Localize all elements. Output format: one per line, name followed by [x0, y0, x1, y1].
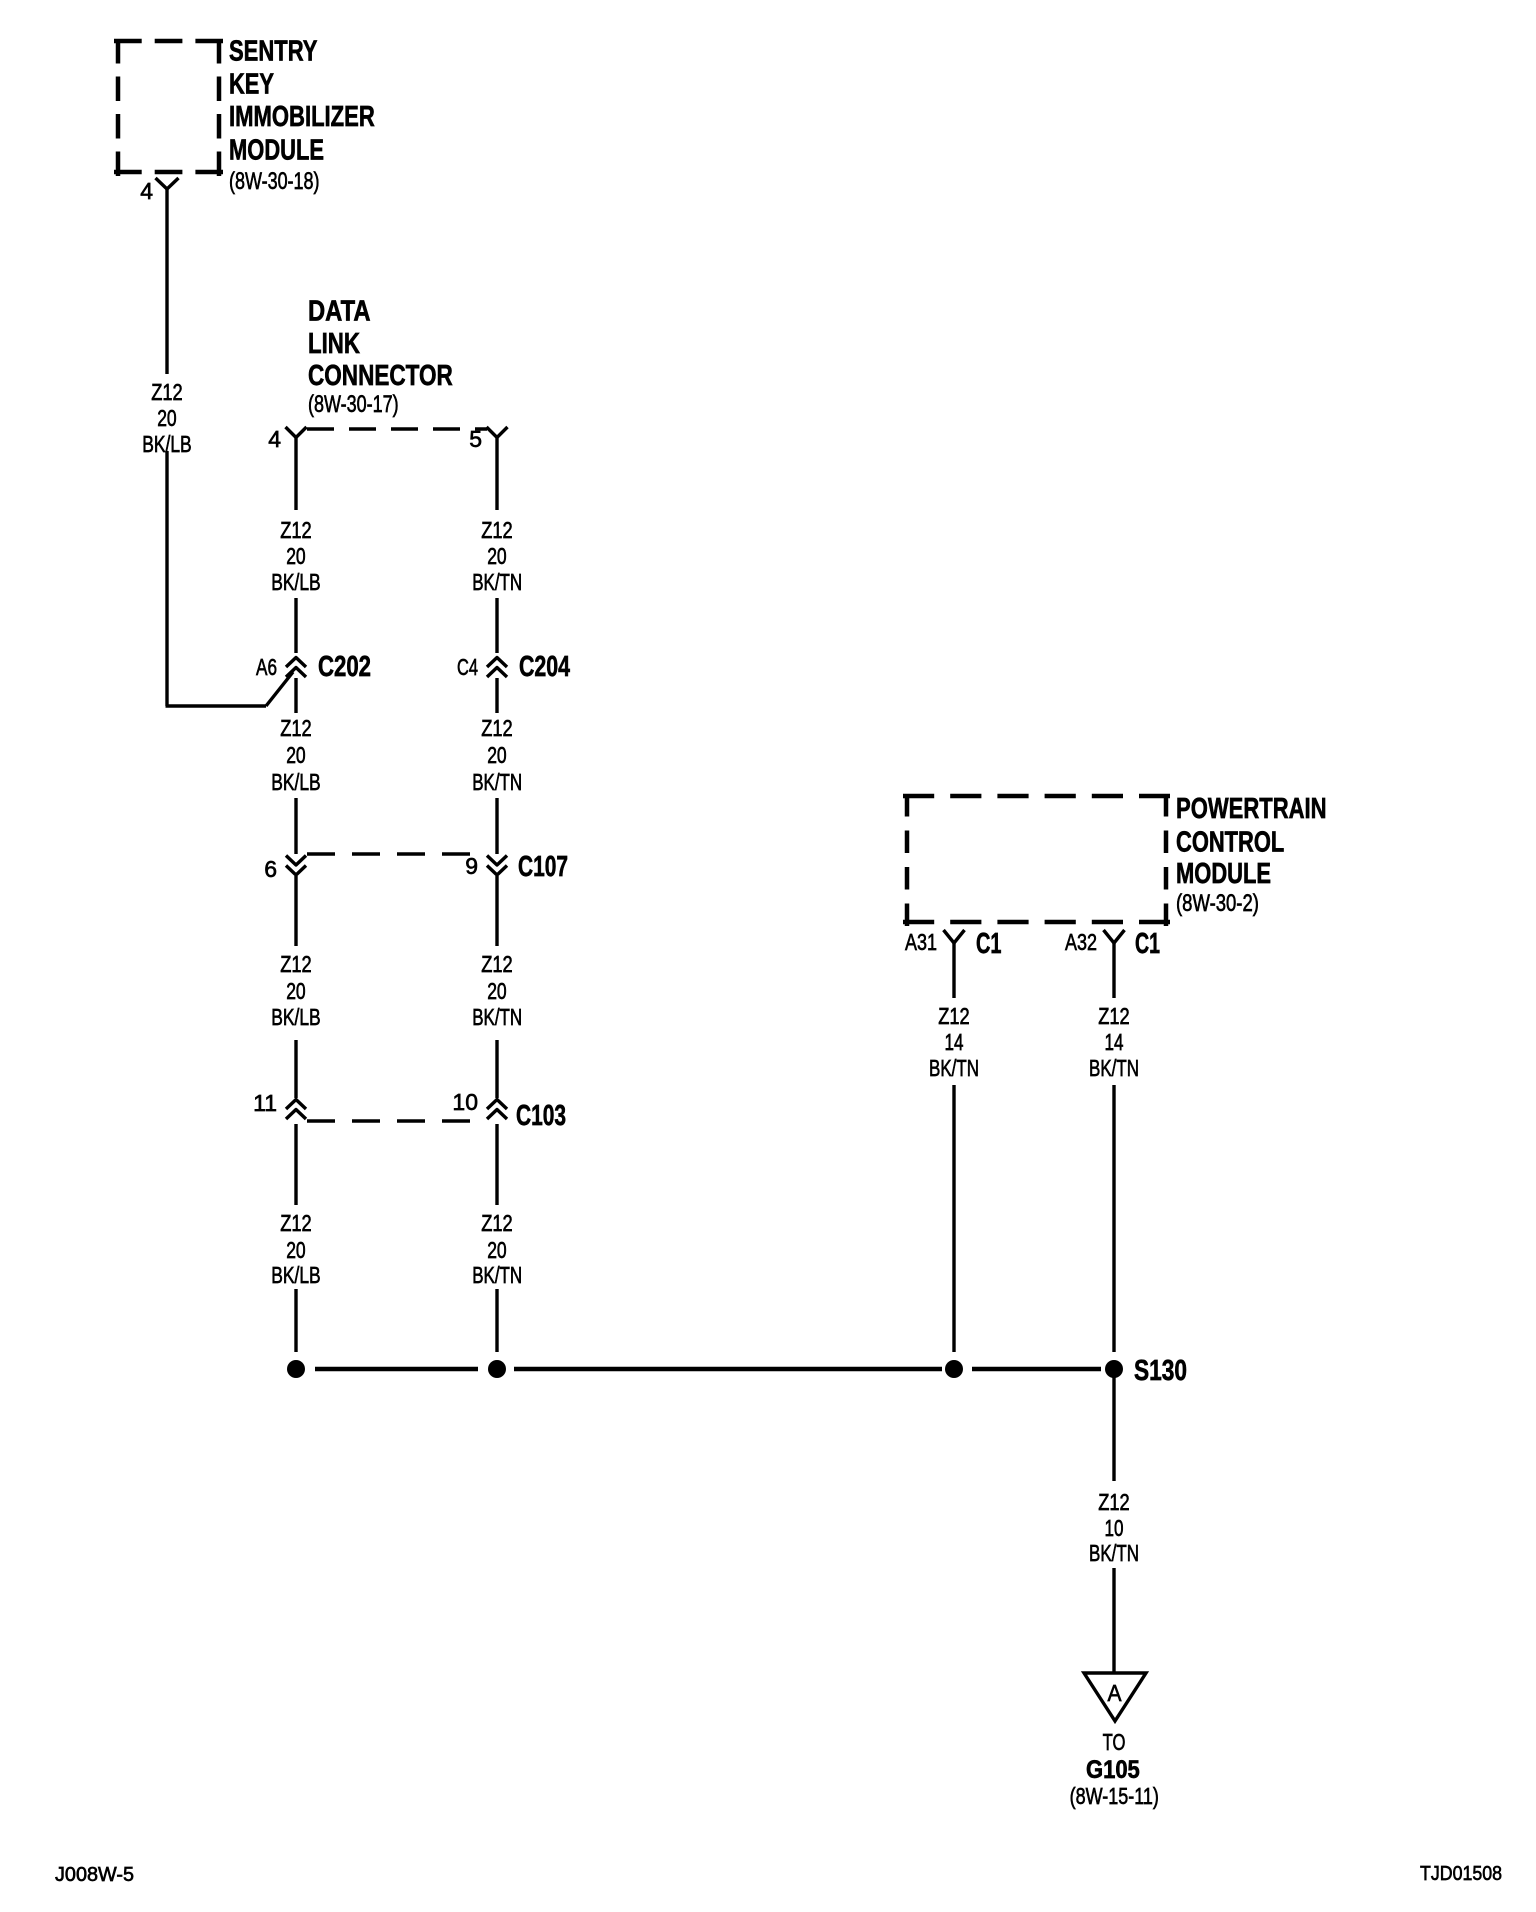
svg-text:C204: C204 — [519, 651, 570, 683]
pin A32 connector Y symbol of PCM — [1104, 930, 1125, 943]
svg-text:20: 20 — [487, 1237, 507, 1263]
label wire Z12 14 BK/TN (column D) — [929, 1003, 979, 1081]
wire column C into C107 pin 9 — [495, 798, 498, 854]
junction dot column C on S130 bus — [488, 1360, 506, 1378]
svg-text:S130: S130 — [1134, 1355, 1187, 1387]
svg-text:9: 9 — [465, 853, 478, 879]
label wire Z12 20 BK/LB (column A) — [142, 379, 192, 457]
wire column B to splice S130 — [294, 1289, 297, 1352]
svg-text:6: 6 — [264, 856, 277, 882]
svg-text:TO: TO — [1103, 1729, 1126, 1755]
label wire Z12 20 BK/TN (column C above C204) — [472, 517, 522, 595]
svg-text:4: 4 — [268, 426, 281, 452]
svg-text:BK/TN: BK/TN — [472, 569, 522, 595]
wire column B into C107 pin 6 — [294, 798, 297, 854]
wire below C107 pin 9 — [495, 876, 498, 946]
svg-text:A32: A32 — [1065, 929, 1097, 955]
label DATA LINK CONNECTOR (8W-30-17) — [308, 296, 453, 418]
svg-text:C103: C103 — [516, 1100, 566, 1132]
svg-text:Z12: Z12 — [151, 379, 183, 405]
svg-text:C107: C107 — [518, 851, 568, 883]
svg-text:A31: A31 — [905, 929, 937, 955]
svg-text:MODULE: MODULE — [1176, 858, 1271, 890]
wire Z12 10 BK/TN below S130 — [1112, 1369, 1115, 1481]
wire column E to splice S130 — [1112, 1085, 1115, 1352]
svg-text:CONTROL: CONTROL — [1176, 827, 1284, 859]
wire below C103 pin 10 — [495, 1124, 498, 1205]
label wire Z12 20 BK/TN (column C below C204) — [472, 715, 522, 795]
svg-text:DATA: DATA — [308, 296, 371, 328]
connector C107 pin 6 double chevron symbol — [286, 856, 306, 876]
connector C202 double chevron symbol — [286, 658, 306, 678]
wire column D to splice S130 — [952, 1085, 955, 1352]
label TO G105 (8W-15-11) — [1070, 1729, 1159, 1809]
connector C103 body dashed line — [307, 1119, 486, 1122]
svg-text:J008W-5: J008W-5 — [55, 1864, 134, 1886]
svg-text:MODULE: MODULE — [229, 135, 324, 167]
svg-text:BK/LB: BK/LB — [271, 569, 321, 595]
junction dot column B on S130 bus — [287, 1360, 305, 1378]
svg-text:Z12: Z12 — [280, 951, 312, 977]
pin 5 connector Y symbol of DLC — [487, 427, 508, 438]
svg-text:A6: A6 — [256, 654, 277, 680]
svg-text:Z12: Z12 — [481, 715, 513, 741]
svg-text:IMMOBILIZER: IMMOBILIZER — [229, 101, 375, 133]
wire splice bus segment between column B and C — [315, 1367, 478, 1372]
label wire Z12 20 BK/LB (column B above C202) — [271, 517, 321, 595]
svg-text:14: 14 — [945, 1029, 964, 1055]
svg-text:20: 20 — [286, 742, 306, 768]
svg-text:BK/LB: BK/LB — [271, 1004, 321, 1030]
data link connector body dashed line — [307, 427, 487, 430]
wire from PCM pin A31 (stem) — [952, 943, 955, 998]
svg-text:CONNECTOR: CONNECTOR — [308, 360, 453, 392]
svg-text:TJD01508: TJD01508 — [1420, 1863, 1502, 1885]
wire down to off-page reference A — [1112, 1568, 1115, 1673]
svg-text:20: 20 — [286, 543, 306, 569]
wire column C into C204 — [495, 598, 498, 653]
svg-text:C1: C1 — [976, 928, 1002, 960]
label wire Z12 20 BK/LB (column B bottom) — [271, 1210, 321, 1288]
svg-text:(8W-30-17): (8W-30-17) — [308, 391, 399, 418]
module U2 POWERTRAIN CONTROL MODULE dashed box — [903, 794, 1170, 926]
svg-text:Z12: Z12 — [280, 1210, 312, 1236]
svg-text:BK/TN: BK/TN — [1089, 1540, 1139, 1566]
svg-text:Z12: Z12 — [481, 951, 513, 977]
module U1 SENTRY KEY IMMOBILIZER MODULE dashed box — [114, 39, 223, 176]
svg-text:C4: C4 — [457, 654, 478, 680]
svg-text:BK/LB: BK/LB — [271, 769, 321, 795]
svg-text:Z12: Z12 — [280, 715, 312, 741]
svg-text:Z12: Z12 — [481, 517, 513, 543]
svg-text:Z12: Z12 — [1098, 1003, 1130, 1029]
svg-text:10: 10 — [1105, 1515, 1124, 1541]
junction dot S130 — [1105, 1360, 1123, 1378]
svg-text:BK/TN: BK/TN — [1089, 1055, 1139, 1081]
svg-text:Z12: Z12 — [1098, 1489, 1130, 1515]
wire splice bus segment between column D and S130 — [972, 1367, 1101, 1372]
svg-text:10: 10 — [452, 1089, 478, 1115]
label SENTRY KEY IMMOBILIZER MODULE (8W-30-18) — [229, 36, 375, 196]
svg-text:(8W-15-11): (8W-15-11) — [1070, 1783, 1159, 1809]
wire Z12 20 BK/LB continues down column A — [165, 451, 168, 706]
svg-text:Z12: Z12 — [280, 517, 312, 543]
label wire Z12 14 BK/TN (column E) — [1089, 1003, 1139, 1081]
svg-text:14: 14 — [1105, 1029, 1124, 1055]
wire below C204 — [495, 678, 498, 713]
wire below C107 pin 6 — [294, 876, 297, 946]
connector C107 pin 9 double chevron symbol — [487, 856, 507, 876]
wire below DLC pin 5 — [495, 438, 498, 511]
svg-text:A: A — [1108, 1680, 1123, 1706]
svg-text:BK/TN: BK/TN — [472, 769, 522, 795]
svg-text:BK/LB: BK/LB — [271, 1262, 321, 1288]
svg-text:20: 20 — [487, 978, 507, 1004]
connector C107 body dashed line — [307, 852, 486, 855]
svg-text:20: 20 — [286, 978, 306, 1004]
svg-text:SENTRY: SENTRY — [229, 36, 318, 68]
wire below DLC pin 4 — [294, 438, 297, 511]
svg-text:LINK: LINK — [308, 328, 360, 360]
svg-text:20: 20 — [157, 405, 177, 431]
label wire Z12 10 BK/TN — [1089, 1489, 1139, 1566]
wire column C to splice S130 — [495, 1289, 498, 1352]
svg-text:Z12: Z12 — [481, 1210, 513, 1236]
wire splice bus segment between column C and D — [514, 1367, 942, 1372]
svg-text:11: 11 — [253, 1090, 277, 1116]
svg-text:20: 20 — [487, 742, 507, 768]
svg-text:G105: G105 — [1086, 1756, 1140, 1784]
connector C103 pin 10 double chevron symbol — [487, 1100, 507, 1120]
pin 4 connector Y symbol of SKIM — [156, 178, 179, 189]
wire column C into C103 pin 10 — [495, 1040, 498, 1098]
label wire Z12 20 BK/TN (column C bottom) — [472, 1210, 522, 1288]
wire below C103 pin 11 — [294, 1124, 297, 1205]
label POWERTRAIN CONTROL MODULE (8W-30-2) — [1176, 793, 1327, 917]
svg-text:(8W-30-18): (8W-30-18) — [229, 168, 320, 195]
wire Z12 20 BK/LB from SKIM pin 4 (upper segment) — [165, 189, 168, 374]
wire diagonal run up to connector C202 — [266, 672, 293, 706]
label wire Z12 20 BK/TN (column C below C107) — [472, 951, 522, 1030]
connector C204 double chevron symbol — [487, 658, 507, 678]
svg-text:POWERTRAIN: POWERTRAIN — [1176, 793, 1327, 825]
svg-text:KEY: KEY — [229, 69, 274, 101]
svg-text:(8W-30-2): (8W-30-2) — [1176, 890, 1259, 917]
wire from PCM pin A32 (stem) — [1112, 943, 1115, 998]
wire below C202 — [294, 678, 297, 713]
wire horizontal run to C202 — [166, 704, 267, 707]
off-page reference triangle A — [1084, 1673, 1146, 1721]
svg-text:5: 5 — [469, 426, 482, 452]
svg-text:C202: C202 — [318, 651, 371, 683]
svg-text:20: 20 — [286, 1237, 306, 1263]
svg-text:BK/TN: BK/TN — [472, 1262, 522, 1288]
svg-text:C1: C1 — [1135, 928, 1160, 960]
svg-text:Z12: Z12 — [938, 1003, 970, 1029]
label wire Z12 20 BK/LB (column B below C107) — [271, 951, 321, 1030]
svg-text:BK/TN: BK/TN — [929, 1055, 979, 1081]
svg-text:20: 20 — [487, 543, 507, 569]
wire column B into C103 pin 11 — [294, 1040, 297, 1098]
wire column B into C202 — [294, 598, 297, 653]
pin A31 connector Y symbol of PCM — [944, 930, 965, 943]
svg-text:BK/TN: BK/TN — [472, 1004, 522, 1030]
pin 4 connector Y symbol of DLC — [286, 427, 307, 438]
connector C103 pin 11 double chevron symbol — [286, 1100, 306, 1120]
label wire Z12 20 BK/LB (column B below C202) — [271, 715, 321, 795]
svg-text:4: 4 — [140, 178, 153, 204]
junction dot column D on S130 bus — [945, 1360, 963, 1378]
